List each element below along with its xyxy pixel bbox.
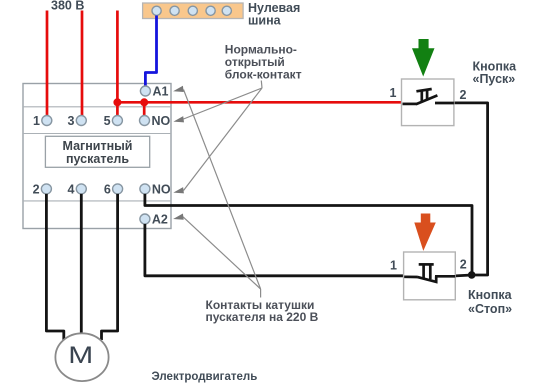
svg-text:1: 1 bbox=[390, 86, 397, 100]
motor wire from terminal 4 bbox=[80, 194, 83, 334]
svg-text:1: 1 bbox=[33, 114, 40, 128]
junction dot (L3 / control) bbox=[113, 98, 121, 106]
svg-text:пускателя на 220 В: пускателя на 220 В bbox=[206, 310, 319, 324]
svg-text:380 В: 380 В bbox=[51, 0, 84, 13]
junction dot (NO branch) bbox=[140, 98, 148, 106]
svg-text:NO: NO bbox=[152, 182, 171, 196]
blue neutral wire to A1 bbox=[145, 16, 156, 87]
red control wire to start button bbox=[117, 101, 402, 104]
svg-text:A1: A1 bbox=[153, 85, 169, 99]
inner label box bbox=[45, 136, 149, 167]
svg-text:Электродвигатель: Электродвигатель bbox=[152, 371, 258, 383]
annotation stub line F1 bbox=[260, 81, 263, 89]
arrowhead NO bottom bbox=[173, 187, 184, 193]
annotation line F2 to A1 bbox=[184, 90, 261, 290]
start button box bbox=[402, 79, 454, 126]
divider line 1 bbox=[23, 106, 171, 108]
svg-text:пускатель: пускатель bbox=[66, 152, 129, 166]
motor letter М bbox=[68, 341, 93, 368]
annotation line F2 to A2 bbox=[183, 217, 261, 289]
arrowhead NO top bbox=[173, 116, 184, 122]
terminal NO (bottom) bbox=[140, 184, 150, 194]
terminal A1 bbox=[140, 86, 150, 96]
phase wire L1 (red) bbox=[46, 11, 49, 117]
green arrow (press start) bbox=[412, 39, 435, 77]
svg-text:3: 3 bbox=[68, 114, 75, 128]
terminal 6 bbox=[113, 184, 123, 194]
annotation stub line F2 bbox=[260, 289, 262, 298]
neutral bus (Нулевая шина) bar bbox=[143, 3, 244, 19]
terminal 2 bbox=[41, 184, 51, 194]
motor wire from terminal 6 bbox=[102, 194, 118, 340]
svg-text:Кнопка: Кнопка bbox=[468, 288, 513, 302]
svg-text:2: 2 bbox=[33, 182, 40, 196]
svg-text:М: М bbox=[68, 341, 93, 368]
label: Кнопка «Стоп» bbox=[468, 288, 513, 316]
wire NO(bottom) to junction bbox=[145, 194, 472, 275]
wire stop button to start button terminal 2 bbox=[454, 103, 488, 276]
svg-text:шина: шина bbox=[248, 14, 282, 28]
start button NO contact symbol bbox=[403, 89, 454, 104]
arrowhead A1 bbox=[173, 86, 184, 92]
annotation: Нормально-открытый блок-контакт bbox=[225, 43, 302, 82]
red branch to NO terminal bbox=[143, 102, 146, 116]
svg-text:Магнитный: Магнитный bbox=[63, 139, 133, 153]
terminal 1 bbox=[42, 116, 52, 126]
bus terminal circles bbox=[152, 6, 231, 15]
annotation line F1 to NO top bbox=[184, 88, 263, 119]
svg-text:2: 2 bbox=[460, 258, 467, 272]
stop button box bbox=[404, 252, 456, 300]
svg-text:А2: А2 bbox=[152, 213, 168, 227]
terminal 4 bbox=[76, 184, 86, 194]
label: Кнопка «Пуск» bbox=[473, 60, 518, 87]
terminal NO (top) bbox=[140, 116, 150, 126]
magnetic starter box bbox=[23, 84, 171, 229]
svg-text:2: 2 bbox=[460, 88, 467, 102]
divider line 3 bbox=[23, 200, 171, 202]
svg-text:NO: NO bbox=[152, 114, 171, 128]
divider line 2 bbox=[23, 133, 171, 135]
label: Магнитный пускатель bbox=[63, 139, 133, 166]
svg-text:1: 1 bbox=[390, 259, 397, 273]
orange arrow (press stop) bbox=[414, 214, 436, 251]
phase wire L2 (red) bbox=[81, 11, 84, 117]
phase wire L3 (red) bbox=[116, 11, 119, 117]
svg-text:6: 6 bbox=[104, 182, 111, 196]
svg-text:5: 5 bbox=[104, 114, 111, 128]
terminal A2 bbox=[140, 214, 150, 224]
svg-text:блок-контакт: блок-контакт bbox=[225, 67, 302, 81]
svg-text:«Стоп»: «Стоп» bbox=[468, 302, 512, 316]
annotation line F1 to NO bottom bbox=[184, 88, 263, 191]
wire A2 to stop button bbox=[145, 224, 404, 276]
motor wire from terminal 2 bbox=[46, 194, 63, 340]
svg-text:4: 4 bbox=[68, 182, 75, 196]
motor circle bbox=[55, 333, 108, 381]
terminal 5 bbox=[112, 116, 122, 126]
terminal 3 bbox=[76, 116, 86, 126]
junction dot (black) bbox=[468, 271, 476, 279]
svg-text:«Пуск»: «Пуск» bbox=[473, 72, 516, 86]
stop button NC contact symbol bbox=[404, 264, 455, 282]
arrowhead A2 bbox=[173, 214, 184, 220]
label: Нулевая шина bbox=[248, 1, 300, 28]
annotation: Контакты катушки пускателя на 220 В bbox=[206, 298, 319, 324]
